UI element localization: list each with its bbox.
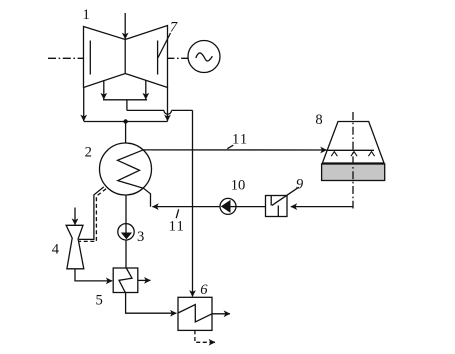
- svg-text:9: 9: [296, 177, 304, 193]
- wire component 4 to heater 5: [75, 269, 112, 281]
- extraction arrow left under turbine: [103, 80, 105, 99]
- turbine left exhaust wire: [83, 88, 85, 122]
- drain wire heater5 to heater6: [126, 293, 177, 314]
- label 7 with leader: [158, 19, 178, 58]
- svg-text:1: 1: [83, 7, 90, 23]
- svg-text:3: 3: [137, 229, 144, 245]
- condensate wire heater2 to component 4 (solid): [79, 187, 104, 240]
- consumer axis (dash-dot): [352, 112, 354, 209]
- arrow into component 4: [74, 208, 76, 225]
- outflow wire heater 6: [212, 313, 230, 315]
- drain dashed wire from heater 6: [195, 330, 215, 342]
- wire to riser with hop over exhaust line: [127, 110, 193, 114]
- pump 3: [118, 224, 134, 240]
- svg-text:11: 11: [232, 132, 248, 148]
- return wire pump to heater 2 coil: [152, 206, 220, 208]
- label 11 (return) with tick: [169, 209, 185, 234]
- pump 10: [220, 198, 236, 214]
- svg-text:11: 11: [169, 218, 185, 234]
- wire junction to heater 2: [125, 122, 127, 144]
- exhaust header wire: [84, 121, 168, 123]
- svg-text:8: 8: [315, 112, 322, 128]
- wire bracket drop: [126, 100, 128, 111]
- turbine inner extraction mark right: [157, 41, 159, 75]
- turbine inlet steam arrow: [124, 13, 126, 39]
- riser wire to heater 6: [192, 110, 194, 296]
- turbine shaft axis (dash-dot): [48, 57, 188, 59]
- outflow wire heater 5: [138, 279, 151, 281]
- svg-text:10: 10: [231, 177, 246, 193]
- heat exchanger 2 (network heater): [100, 143, 152, 207]
- regulator 9: [266, 187, 299, 216]
- extraction arrow right under turbine: [145, 80, 147, 99]
- junction node: [123, 119, 127, 123]
- svg-text:4: 4: [52, 241, 60, 257]
- supply line 11 wire to consumer 8: [143, 149, 327, 151]
- wire regulator to pump 10: [231, 206, 266, 208]
- wire pump 3 to heater 5: [125, 240, 127, 268]
- svg-text:2: 2: [85, 145, 92, 161]
- extraction bracket: [103, 99, 147, 101]
- generator G: [188, 41, 220, 73]
- heat consumer 8: [322, 122, 385, 181]
- wire heater2 to pump 3: [125, 195, 127, 224]
- condensate wire heater2 to component 4 (dashed): [78, 189, 106, 242]
- component 4 (deaerator column): [66, 225, 84, 268]
- svg-text:7: 7: [170, 19, 178, 35]
- turbine inner extraction mark left: [89, 41, 91, 75]
- turbine right exhaust wire: [167, 88, 169, 122]
- svg-text:6: 6: [200, 282, 208, 298]
- return wire from consumer to regulator 9: [291, 206, 353, 208]
- label 11 (supply) with tick: [227, 132, 248, 149]
- heater 6: [178, 297, 212, 330]
- svg-text:5: 5: [95, 292, 102, 308]
- turbine T1 outline: [84, 26, 168, 88]
- heater 5: [113, 268, 138, 293]
